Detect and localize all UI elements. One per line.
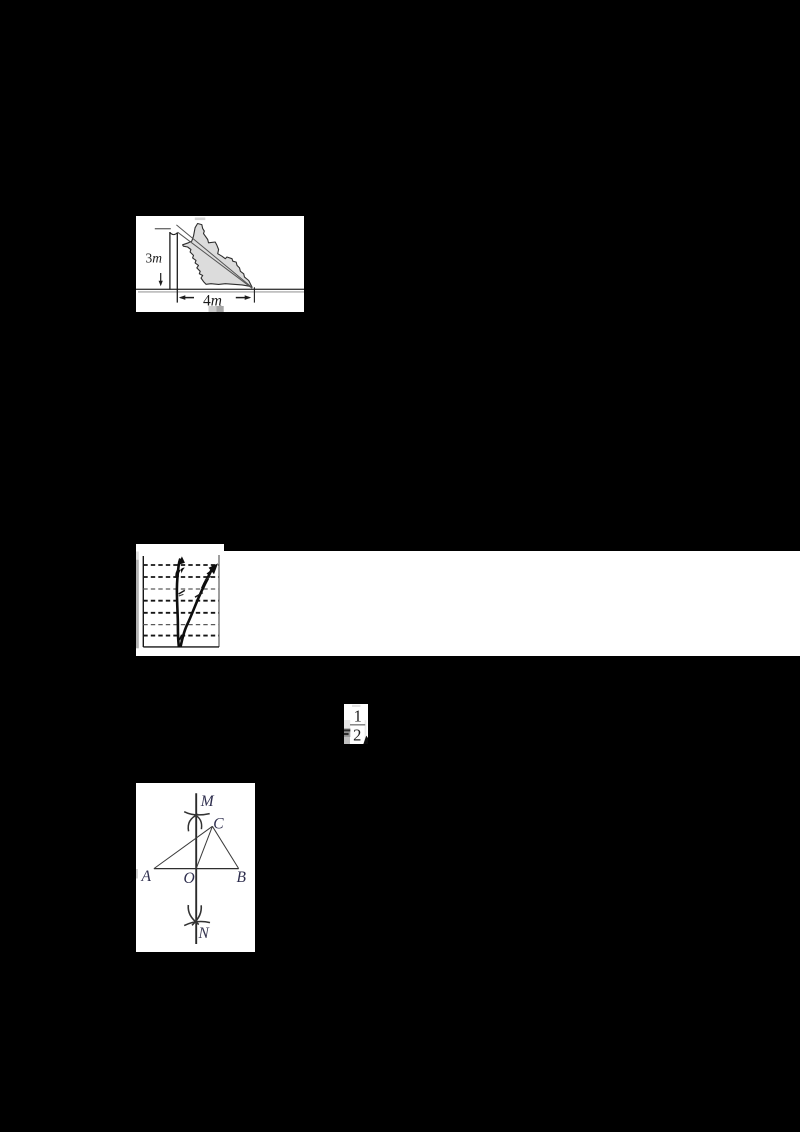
dashed line 6 (143, 624, 219, 626)
grey left column (344, 720, 350, 728)
right growth curve (181, 566, 214, 647)
top arc horizontal (184, 812, 210, 815)
left curve knot (177, 570, 179, 578)
4m dimension right arrow (236, 297, 250, 299)
grid right border (218, 555, 220, 647)
dashed line 3 (143, 588, 219, 590)
bottom cup right arm (192, 905, 201, 925)
svg-text:A: A (141, 868, 152, 885)
figure 2: growth-curve grid box (136, 544, 224, 656)
left growth curve (177, 559, 180, 647)
top arc right arm (194, 815, 202, 830)
svg-text:M: M (200, 793, 215, 810)
left edge grey sliver (136, 869, 138, 879)
grid left axis (142, 556, 144, 647)
ground line grey (138, 291, 304, 293)
comma wedge (363, 736, 368, 744)
wall top dip (170, 233, 177, 235)
top arc left arm (188, 814, 198, 831)
down arrow of 3m dimension (160, 273, 162, 284)
wall line right (176, 233, 178, 303)
white band behind paragraph row (220, 551, 800, 656)
bottom arc horizontal (184, 921, 210, 925)
base fork (180, 636, 182, 641)
dashed line 2 (143, 576, 219, 578)
mound blob (183, 224, 253, 288)
figure 1: slide/mound diagram box (136, 216, 304, 312)
top smudge (352, 705, 360, 707)
side AB (154, 868, 239, 870)
left curve arrowhead (178, 556, 185, 565)
dashed line 1 (143, 564, 219, 566)
segment OC (196, 826, 212, 868)
3m top tick (155, 228, 171, 230)
dashed line 7 (143, 635, 219, 637)
right curve twigs (195, 593, 203, 598)
grid bottom border (143, 646, 219, 648)
wall line left (169, 232, 171, 289)
right curve knot (203, 578, 208, 588)
svg-text:1: 1 (354, 707, 362, 726)
bottom grey smudge (209, 306, 217, 312)
right extension line (253, 287, 255, 302)
fraction 1/2 inline image box (344, 704, 368, 744)
top grey smudge (195, 218, 206, 221)
left curve twigs (179, 590, 185, 594)
side BC (212, 826, 238, 868)
dashed line 4 (143, 600, 219, 602)
slide line lower (178, 232, 253, 288)
svg-text:B: B (237, 869, 247, 886)
figure 4: perpendicular bisector construction box (136, 783, 255, 952)
bottom cup left arm (188, 905, 199, 925)
right light column (365, 720, 367, 743)
line MN vertical (195, 793, 197, 944)
4m dimension left arrow (181, 297, 195, 299)
svg-text:N: N (198, 925, 211, 942)
slide line upper (176, 225, 252, 288)
partial equals glyph (344, 729, 350, 731)
ground line dark (136, 288, 304, 290)
fraction bar (350, 724, 365, 725)
dashed line 5 (143, 612, 219, 614)
svg-text:3m: 3m (146, 250, 163, 265)
left grey strip (136, 552, 139, 560)
svg-text:4m: 4m (203, 293, 222, 310)
svg-text:O: O (184, 870, 195, 887)
right curve arrowhead (209, 563, 218, 574)
side AC (154, 826, 213, 868)
svg-text:2: 2 (353, 726, 361, 744)
